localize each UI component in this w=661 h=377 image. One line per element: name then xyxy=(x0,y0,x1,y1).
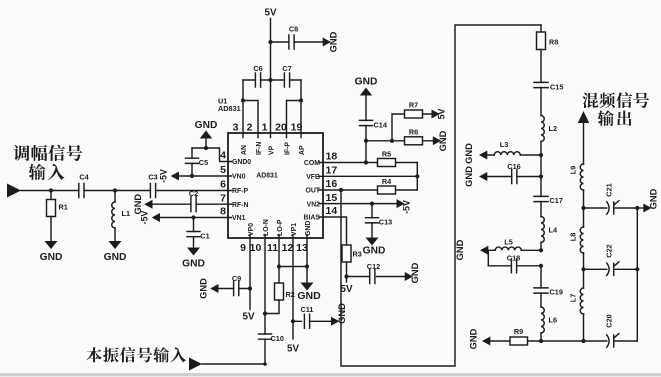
ground pin4 (up arrow) xyxy=(205,139,207,149)
svg-text:GND: GND xyxy=(469,328,479,349)
wire pins 11-13 tie line xyxy=(279,266,307,268)
svg-text:AN: AN xyxy=(241,145,248,155)
svg-text:GND: GND xyxy=(305,221,312,236)
capacitor C13 xyxy=(371,204,373,218)
svg-text:-5V: -5V xyxy=(159,169,169,183)
svg-text:18: 18 xyxy=(326,151,338,163)
capacitor C16 xyxy=(512,170,517,184)
svg-text:4: 4 xyxy=(220,150,226,162)
node VFB join xyxy=(415,174,419,178)
node ladder1 bottom xyxy=(539,339,543,343)
wire ladder1 segment xyxy=(540,155,542,177)
text 调幅信号 (AM signal) xyxy=(13,145,29,161)
svg-text:5V: 5V xyxy=(243,312,255,323)
svg-text:19: 19 xyxy=(291,122,303,134)
svg-text:GND: GND xyxy=(297,290,321,302)
power -5V at pin 5 xyxy=(171,172,179,181)
svg-text:5V: 5V xyxy=(341,284,353,295)
wire 5V supply to pin 1 VP xyxy=(270,19,272,138)
ground R1 xyxy=(45,241,58,249)
wire filter bottom line xyxy=(541,340,637,342)
svg-text:5: 5 xyxy=(220,164,226,176)
ground arrow left of C16 xyxy=(479,172,487,181)
svg-text:VN2: VN2 xyxy=(307,201,321,208)
wire R9 row xyxy=(490,340,541,342)
capacitor C10 xyxy=(259,334,272,339)
svg-text:15: 15 xyxy=(326,192,338,204)
node C10 bottom xyxy=(263,362,267,366)
svg-text:GND: GND xyxy=(104,252,127,263)
op-amp U1 AD831 mixer IC body xyxy=(228,133,323,238)
resistor R8 xyxy=(540,25,542,32)
capacitor C9 xyxy=(219,288,251,290)
node OUT takeoff xyxy=(339,188,343,192)
svg-text:C5: C5 xyxy=(199,158,208,167)
ground arrow right of C11 xyxy=(331,317,339,326)
svg-text:GND0: GND0 xyxy=(232,159,251,166)
wire pin 13 GND xyxy=(306,235,308,283)
svg-text:C2: C2 xyxy=(189,189,198,198)
node C14/COM row xyxy=(364,160,368,164)
svg-text:C4: C4 xyxy=(79,173,89,182)
svg-text:L6: L6 xyxy=(549,316,558,325)
svg-text:GND: GND xyxy=(182,259,205,270)
svg-text:C9: C9 xyxy=(232,274,241,283)
wire far-right bus xyxy=(636,208,638,341)
svg-text:R1: R1 xyxy=(59,203,68,212)
wire pin 11 LO-P xyxy=(278,235,280,284)
node VP junction for C6/C7 xyxy=(268,78,272,82)
svg-text:L9: L9 xyxy=(569,166,578,175)
svg-text:RF-P: RF-P xyxy=(232,188,248,195)
capacitor C7 xyxy=(284,73,289,87)
wire OUT routing to filter xyxy=(341,25,541,366)
svg-text:C10: C10 xyxy=(271,334,284,343)
ground arrow left of L5 xyxy=(480,246,488,255)
inductor L1 xyxy=(114,191,116,203)
wire pin 7 RF-N xyxy=(153,203,232,205)
svg-text:IF-P: IF-P xyxy=(284,142,291,155)
input arrow LO signal xyxy=(189,358,202,371)
svg-text:OUT: OUT xyxy=(305,188,320,195)
node GND bracket xyxy=(204,146,208,150)
inductor L5 xyxy=(495,247,521,250)
svg-text:COM: COM xyxy=(304,160,320,167)
inductor L3 xyxy=(494,152,520,155)
power label 5V (pin 12) xyxy=(292,321,294,339)
node pins 2-3 tie xyxy=(241,98,245,102)
svg-text:17: 17 xyxy=(326,165,338,177)
svg-text:R3: R3 xyxy=(353,250,362,259)
power label 5V (R3) xyxy=(346,277,348,283)
inductor L9 xyxy=(580,164,583,190)
svg-text:L7: L7 xyxy=(569,294,578,303)
svg-text:AD831: AD831 xyxy=(256,173,278,180)
svg-text:C22: C22 xyxy=(605,244,614,257)
capacitor C2 xyxy=(191,197,196,212)
svg-text:C21: C21 xyxy=(605,183,614,196)
node pins 19-20 tie xyxy=(299,98,303,102)
wire C8 branch xyxy=(271,41,323,43)
svg-text:GND: GND xyxy=(649,188,659,209)
svg-text:7: 7 xyxy=(220,192,226,204)
wire pin3 riser from C6 xyxy=(242,80,244,138)
svg-text:VN0: VN0 xyxy=(232,174,246,181)
svg-text:13: 13 xyxy=(296,242,308,254)
capacitor C17 xyxy=(540,177,542,197)
resistor R9 xyxy=(510,337,528,345)
capacitor C1 xyxy=(193,218,195,232)
resistor R5 xyxy=(378,159,396,167)
svg-text:5V: 5V xyxy=(437,108,447,119)
svg-text:C14: C14 xyxy=(374,121,388,130)
wire pin 9 VP0 xyxy=(249,235,251,310)
wire pin 8 VN1 xyxy=(160,217,232,219)
text 本振信号输入 (LO input) xyxy=(86,347,101,362)
svg-text:VN1: VN1 xyxy=(232,215,246,222)
node C21 row xyxy=(581,206,585,210)
svg-text:C13: C13 xyxy=(379,218,392,227)
svg-text:20: 20 xyxy=(275,122,287,134)
svg-text:R8: R8 xyxy=(549,38,558,47)
wire R5 to VFB/R4 vertical xyxy=(416,163,418,191)
svg-text:3: 3 xyxy=(233,122,239,134)
ground arrow left of L3 xyxy=(479,151,487,160)
ground C13 xyxy=(366,238,379,246)
svg-text:GND: GND xyxy=(464,166,474,187)
wire pin 12 VP1 xyxy=(292,235,294,322)
node L7 bottom xyxy=(581,339,585,343)
node R7 drop xyxy=(390,139,394,143)
wire LO input line xyxy=(202,363,265,365)
svg-text:GND: GND xyxy=(363,246,386,257)
svg-text:L5: L5 xyxy=(504,238,513,247)
ground C14 (up arrow) xyxy=(360,88,372,96)
svg-text:GND: GND xyxy=(199,278,209,299)
text 混频信号 (mixed signal) xyxy=(582,93,598,108)
svg-text:10: 10 xyxy=(250,242,262,254)
node L3 row xyxy=(539,153,543,157)
ground arrow left of R9 xyxy=(482,337,490,346)
svg-text:C12: C12 xyxy=(367,262,380,271)
svg-text:R7: R7 xyxy=(409,101,418,110)
inductor L6 xyxy=(541,307,544,333)
svg-text:C20: C20 xyxy=(605,314,614,327)
svg-text:AP: AP xyxy=(299,145,306,155)
ground pin 13 xyxy=(301,283,314,291)
svg-text:GND: GND xyxy=(355,77,378,88)
wire pin 15 VN2 xyxy=(319,203,397,205)
capacitor C5 xyxy=(191,148,193,158)
ground arrow right of C12 xyxy=(405,272,413,281)
ground C1 xyxy=(187,248,200,256)
svg-text:C8: C8 xyxy=(289,25,298,34)
ground arrow left of C9 xyxy=(210,284,218,293)
svg-text:L3: L3 xyxy=(500,140,509,149)
node pin11 tie xyxy=(277,264,281,268)
svg-text:5V: 5V xyxy=(265,8,277,19)
node C9 tap xyxy=(248,286,252,290)
wire L5 row xyxy=(488,249,541,251)
wire R7 branch xyxy=(392,114,432,141)
wire L3 row xyxy=(487,154,541,156)
svg-text:L1: L1 xyxy=(122,209,131,218)
node C13 tap xyxy=(370,202,374,206)
svg-text:11: 11 xyxy=(267,242,278,254)
svg-text:R9: R9 xyxy=(514,327,523,336)
svg-text:C19: C19 xyxy=(550,288,563,297)
svg-text:IF-N: IF-N xyxy=(256,142,263,155)
capacitor C3 xyxy=(150,184,155,198)
node C21/bus xyxy=(635,206,639,210)
node R2 bottom join xyxy=(263,311,267,315)
node C1 tap xyxy=(191,215,195,219)
node R1 tap xyxy=(49,188,53,192)
resistor R4 xyxy=(378,186,396,194)
svg-text:VP1: VP1 xyxy=(291,223,298,236)
svg-text:LO-P: LO-P xyxy=(277,219,284,236)
svg-text:5V: 5V xyxy=(287,344,299,355)
wire R6 row xyxy=(366,140,433,142)
svg-text:R4: R4 xyxy=(382,177,392,186)
svg-text:2: 2 xyxy=(247,122,253,134)
svg-text:GND: GND xyxy=(40,252,63,263)
wire pin 10 LO-N xyxy=(264,235,266,335)
wire C21 row xyxy=(584,207,638,209)
ground arrow right of R6 xyxy=(433,136,441,145)
node L1 tap xyxy=(113,188,117,192)
svg-text:C15: C15 xyxy=(550,83,563,92)
svg-text:C1: C1 xyxy=(200,232,209,241)
node VP junction for C8 xyxy=(268,40,272,44)
svg-text:C6: C6 xyxy=(253,64,262,73)
capacitor C18 xyxy=(511,259,516,273)
ground arrow right of C21 xyxy=(637,207,643,209)
svg-text:C11: C11 xyxy=(301,305,314,314)
node C22/bus xyxy=(635,267,639,271)
power arrow 5V at R7 xyxy=(432,110,440,119)
svg-text:14: 14 xyxy=(326,205,338,217)
output arrow 混频信号输出 xyxy=(578,111,589,123)
svg-text:L4: L4 xyxy=(549,226,558,235)
svg-text:VFB: VFB xyxy=(306,174,320,181)
wire jog to pin 2 xyxy=(243,101,258,138)
ground arrow left of C2 xyxy=(144,200,152,209)
svg-text:GND: GND xyxy=(410,262,420,283)
node C14/R6 row xyxy=(364,139,368,143)
svg-text:12: 12 xyxy=(282,242,294,254)
svg-text:RF-N: RF-N xyxy=(232,202,248,209)
capacitor C19 xyxy=(540,266,542,288)
svg-text:C18: C18 xyxy=(507,253,520,262)
scan artifact bottom band xyxy=(0,373,661,376)
wire C12 row xyxy=(347,276,405,278)
svg-text:C7: C7 xyxy=(282,64,291,73)
svg-text:L2: L2 xyxy=(549,124,558,133)
text 输入 (input) xyxy=(29,164,46,180)
svg-text:9: 9 xyxy=(240,242,246,254)
wire pin 14 BIAS xyxy=(319,217,347,245)
svg-text:GND: GND xyxy=(455,239,465,260)
wire C18 row xyxy=(488,265,541,267)
wire pin19 riser from C7 xyxy=(300,80,302,138)
wire jog to pin 20 xyxy=(287,101,302,138)
wire pin 17 VFB xyxy=(319,175,417,177)
svg-text:16: 16 xyxy=(326,178,338,190)
capacitor C20 xyxy=(607,335,609,347)
svg-text:VP: VP xyxy=(268,145,275,155)
capacitor C6 xyxy=(255,73,260,87)
ground arrow right of C8 xyxy=(323,38,331,47)
svg-text:C16: C16 xyxy=(507,162,520,171)
wire C6/C7 row xyxy=(243,79,301,81)
node C18 row xyxy=(539,264,543,268)
resistor R3 xyxy=(342,245,351,262)
node L5 row xyxy=(539,248,543,252)
svg-text:R5: R5 xyxy=(382,150,391,159)
wire pin 5 VN0 xyxy=(179,175,232,177)
capacitor C15 xyxy=(534,82,548,87)
inductor L7 xyxy=(580,288,583,314)
node pin13 tie xyxy=(305,264,309,268)
svg-text:VP0: VP0 xyxy=(248,223,255,236)
wire C16 row xyxy=(487,176,541,178)
node R3/C12/5V xyxy=(344,274,348,278)
input arrow AM signal xyxy=(7,184,21,198)
capacitor C12 xyxy=(370,270,375,284)
svg-text:6: 6 xyxy=(220,179,226,191)
capacitor C11 xyxy=(293,320,331,322)
wire C22 row xyxy=(584,268,638,270)
svg-text:C3: C3 xyxy=(148,173,157,182)
power -5V at pin 8 xyxy=(152,213,160,222)
wire L5/C18 bracket xyxy=(487,250,489,265)
node C22 row xyxy=(581,267,585,271)
capacitor C22 xyxy=(607,263,609,275)
resistor R2 xyxy=(275,283,284,300)
svg-text:1: 1 xyxy=(262,122,268,134)
svg-text:L8: L8 xyxy=(569,233,578,242)
svg-text:-5V: -5V xyxy=(402,200,412,214)
capacitor C8 xyxy=(289,35,294,49)
resistor R1 xyxy=(50,191,52,200)
inductor L8 xyxy=(583,208,585,227)
power -5V at pin 15 xyxy=(397,199,405,208)
wire RF input line xyxy=(21,190,232,192)
svg-text:LO-N: LO-N xyxy=(263,219,270,236)
capacitor C21 xyxy=(607,202,609,214)
svg-text:GND: GND xyxy=(329,31,339,52)
svg-text:GND: GND xyxy=(438,130,448,151)
node pin12 to C11/5V xyxy=(291,319,295,323)
wire pin 18 COM xyxy=(319,162,417,164)
svg-text:GND: GND xyxy=(464,143,474,164)
node C16 row xyxy=(539,174,543,178)
wire pin 16 OUT xyxy=(319,189,417,191)
wire pin 4 GND0 bracket xyxy=(192,148,232,162)
svg-text:BIAS: BIAS xyxy=(304,215,321,222)
svg-text:C17: C17 xyxy=(550,196,563,205)
svg-text:AD831: AD831 xyxy=(218,104,241,113)
capacitor C14 xyxy=(360,120,373,125)
resistor R7 xyxy=(405,110,423,118)
svg-text:8: 8 xyxy=(220,206,226,218)
inductor L2 xyxy=(541,116,544,142)
inductor L4 xyxy=(541,217,544,243)
ground L1 xyxy=(109,241,122,249)
svg-text:-5V: -5V xyxy=(140,211,150,225)
text 输出 (output) xyxy=(598,110,614,126)
resistor R6 xyxy=(405,137,423,145)
node C5 to VN0 xyxy=(190,174,194,178)
svg-text:R6: R6 xyxy=(409,128,418,137)
capacitor C4 xyxy=(79,184,84,198)
svg-text:GND: GND xyxy=(195,120,218,131)
svg-text:GND: GND xyxy=(337,303,347,324)
